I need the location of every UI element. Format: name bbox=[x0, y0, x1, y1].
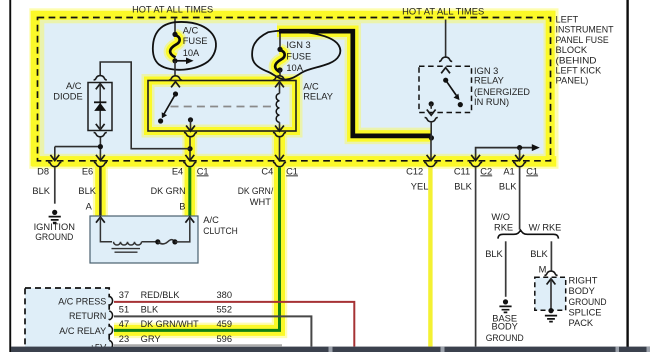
svg-text:37: 37 bbox=[119, 290, 129, 300]
svg-text:A1: A1 bbox=[503, 166, 514, 176]
highlight: thick wire IGN3 relay to fuses bbox=[277, 31, 431, 136]
highlight: IGN 3 fuse element bbox=[275, 50, 285, 72]
connector pin cavities bbox=[109, 296, 112, 349]
node: junction diode/E6/D8 bbox=[98, 144, 103, 149]
svg-text:W/ RKE: W/ RKE bbox=[529, 222, 562, 232]
wire: C11 BLK down bbox=[475, 167, 477, 347]
A/C clutch pin arrows bbox=[96, 217, 105, 223]
svg-text:LEFT: LEFT bbox=[556, 15, 579, 25]
svg-text:380: 380 bbox=[217, 290, 233, 300]
highlight: A/C fuse element bbox=[170, 35, 180, 57]
svg-text:47: 47 bbox=[119, 319, 129, 329]
svg-text:WHT: WHT bbox=[250, 197, 271, 207]
svg-text:459: 459 bbox=[217, 319, 233, 329]
svg-text:(ENERGIZED: (ENERGIZED bbox=[474, 87, 530, 97]
svg-text:DK GRN: DK GRN bbox=[151, 186, 186, 196]
svg-text:BLK: BLK bbox=[78, 186, 96, 196]
svg-text:FUSE: FUSE bbox=[286, 51, 311, 61]
svg-text:IGN 3: IGN 3 bbox=[286, 40, 310, 50]
wire: C4 DK GRN/WHT core bbox=[114, 167, 280, 330]
svg-text:BODY: BODY bbox=[569, 286, 595, 296]
svg-text:A: A bbox=[86, 202, 93, 212]
wire: 23 GRY 596 bbox=[114, 344, 282, 346]
svg-text:C1: C1 bbox=[286, 166, 298, 176]
svg-text:RELAY: RELAY bbox=[303, 92, 333, 102]
svg-text:RIGHT: RIGHT bbox=[569, 276, 598, 286]
svg-text:C12: C12 bbox=[406, 166, 423, 176]
svg-text:INSTRUMENT: INSTRUMENT bbox=[556, 25, 614, 35]
node: junction diode loop / E4 bbox=[187, 146, 192, 151]
svg-text:DK GRN/WHT: DK GRN/WHT bbox=[141, 319, 199, 329]
wire: 37 RED/BLK 380 bbox=[114, 302, 354, 347]
wire: hot feed down to IGN3 relay bbox=[445, 20, 447, 58]
svg-text:BLK: BLK bbox=[485, 249, 503, 259]
wire: W/ RKE BLK to splice pack bbox=[550, 241, 552, 270]
thick wire: IGN3 relay output to IGN3 fuse / A/C relay coil bbox=[279, 31, 431, 136]
wire: A/C fuse to relay pin bbox=[174, 61, 176, 76]
connector pin cavity masks bbox=[108, 297, 111, 348]
highlight: fuse block border bbox=[35, 15, 551, 161]
svg-text:FUSE: FUSE bbox=[183, 36, 208, 46]
svg-text:A/C RELAY: A/C RELAY bbox=[59, 326, 106, 336]
wire: page border right bbox=[626, 0, 628, 352]
IGN3 relay switch bbox=[443, 78, 448, 83]
fuse A/C FUSE 10A outline bbox=[153, 22, 216, 70]
svg-text:E4: E4 bbox=[172, 166, 183, 176]
fuse element IGN 3 bbox=[275, 50, 285, 72]
bottom status bar bbox=[11, 347, 650, 352]
wire: IGN3 fuse to relay coil pin bbox=[279, 70, 281, 76]
svg-text:GRY: GRY bbox=[141, 334, 161, 344]
wire: A1 BLK down to RKE split bbox=[519, 167, 521, 230]
svg-text:PACK: PACK bbox=[569, 318, 594, 328]
svg-text:596: 596 bbox=[217, 334, 233, 344]
relay A/C RELAY box bbox=[148, 81, 296, 132]
ground: ignition ground bbox=[52, 210, 57, 215]
splice: right body ground splice pack box bbox=[535, 277, 566, 310]
ground: splice pack ground bbox=[548, 308, 553, 313]
label RIGHT BODY GROUND SPLICE PACK bbox=[569, 276, 607, 329]
A/C relay switch output pin bbox=[188, 117, 193, 122]
svg-text:HOT AT ALL TIMES: HOT AT ALL TIMES bbox=[132, 4, 213, 14]
svg-text:YEL: YEL bbox=[411, 181, 429, 191]
svg-text:GROUND: GROUND bbox=[35, 232, 73, 242]
svg-text:10A: 10A bbox=[183, 48, 200, 58]
wire: E6 BLK core to clutch A bbox=[99, 167, 102, 216]
highlight: wire E6 to A/C clutch pin A bbox=[93, 157, 108, 216]
svg-text:W/O: W/O bbox=[491, 212, 510, 222]
label LEFT INSTRUMENT PANEL FUSE BLOCK bbox=[556, 15, 614, 86]
svg-text:(BEHIND: (BEHIND bbox=[556, 55, 597, 65]
diode A/C DIODE box bbox=[88, 83, 112, 131]
splice pack internal wire bbox=[547, 279, 556, 285]
svg-text:PANEL FUSE: PANEL FUSE bbox=[556, 35, 609, 45]
wire: diode bottom to D8/E6 junction bbox=[99, 137, 101, 159]
A/C relay coil bbox=[273, 76, 286, 80]
svg-text:10A: 10A bbox=[286, 63, 303, 73]
svg-text:CLUTCH: CLUTCH bbox=[203, 226, 238, 236]
splice pack terminal M bbox=[544, 271, 557, 275]
svg-text:SPLICE: SPLICE bbox=[569, 308, 602, 318]
svg-text:BLK: BLK bbox=[530, 249, 548, 259]
svg-text:51: 51 bbox=[119, 305, 129, 315]
IGN3 relay input terminal bbox=[439, 57, 452, 61]
svg-text:IGNITION: IGNITION bbox=[34, 222, 75, 232]
svg-text:23: 23 bbox=[119, 334, 129, 344]
wire: YEL from C12 bbox=[428, 167, 432, 346]
svg-text:DIODE: DIODE bbox=[53, 92, 82, 102]
connector: A/C press connector (dashed box) bbox=[25, 288, 109, 352]
A/C relay pin 1 terminal bbox=[169, 76, 182, 80]
svg-text:LEFT KICK: LEFT KICK bbox=[556, 65, 602, 75]
ground: base body ground bbox=[503, 299, 508, 304]
wire: page border left bbox=[9, 0, 11, 352]
svg-text:B: B bbox=[179, 202, 185, 212]
wire: C11/A1 tie with off-page arrow bbox=[476, 148, 532, 160]
svg-text:A/C PRESS: A/C PRESS bbox=[58, 297, 106, 307]
A/C relay switch bbox=[173, 91, 178, 96]
svg-text:552: 552 bbox=[217, 305, 233, 315]
svg-text:C4: C4 bbox=[261, 166, 273, 176]
bus arrows into terminals bbox=[50, 155, 59, 161]
svg-text:C1: C1 bbox=[197, 166, 209, 176]
wire: D8 branch bbox=[55, 147, 101, 160]
svg-text:GROUND: GROUND bbox=[569, 297, 607, 307]
svg-text:E6: E6 bbox=[82, 166, 93, 176]
svg-text:DK GRN/: DK GRN/ bbox=[238, 186, 274, 196]
bus terminals on fuse block bottom bbox=[48, 162, 61, 166]
svg-text:C1: C1 bbox=[526, 166, 538, 176]
highlight: wire E4 to A/C clutch pin B bbox=[182, 131, 197, 216]
svg-text:RKE: RKE bbox=[494, 222, 513, 232]
A/C diode terminals bbox=[94, 76, 107, 80]
svg-text:BLK: BLK bbox=[32, 186, 50, 196]
svg-text:RELAY: RELAY bbox=[474, 76, 504, 86]
wire: C12 drop bbox=[430, 138, 432, 159]
svg-text:RETURN: RETURN bbox=[69, 311, 106, 321]
svg-text:BLK: BLK bbox=[141, 305, 159, 315]
left instrument panel fuse block body bbox=[38, 18, 551, 161]
svg-text:C11: C11 bbox=[454, 166, 470, 176]
A/C relay divider (dashed) bbox=[171, 106, 275, 108]
relay IGN 3 RELAY (dashed box) bbox=[419, 66, 472, 112]
wire: C4 drop from relay coil to bus bbox=[279, 137, 281, 159]
wire: E4 drop from relay to bus bbox=[189, 137, 191, 159]
clutch A/C CLUTCH box bbox=[90, 216, 198, 263]
wire: IGN3 fuse top to thick feed bbox=[279, 32, 281, 51]
fuse IGN 3 FUSE 10A outline bbox=[252, 31, 340, 80]
svg-text:BLK: BLK bbox=[454, 181, 472, 191]
fuse block border (dashed) bbox=[38, 18, 551, 161]
svg-text:BLK: BLK bbox=[499, 181, 517, 191]
svg-text:A/C: A/C bbox=[203, 215, 219, 225]
fuse element A/C bbox=[170, 35, 180, 57]
wire: E4 DK GRN core to clutch B bbox=[188, 167, 191, 216]
svg-text:IN RUN): IN RUN) bbox=[474, 97, 509, 107]
wire: 51 BLK 552 bbox=[114, 316, 311, 346]
svg-text:BODY: BODY bbox=[492, 322, 518, 332]
wire: D8 BLK to ignition ground bbox=[54, 167, 56, 204]
svg-text:A/C: A/C bbox=[183, 26, 199, 36]
svg-text:GROUND: GROUND bbox=[486, 333, 524, 343]
svg-text:A/C: A/C bbox=[303, 82, 319, 92]
highlight: wire C4 to connector pin 47 (DK GRN/WHT) bbox=[114, 131, 280, 330]
svg-text:RED/BLK: RED/BLK bbox=[141, 290, 181, 300]
svg-text:PANEL): PANEL) bbox=[556, 76, 589, 86]
A/C clutch coil circuit bbox=[100, 217, 112, 242]
svg-text:HOT AT ALL TIMES: HOT AT ALL TIMES bbox=[402, 6, 484, 16]
wire: A/C diode loop to relay bbox=[100, 62, 190, 149]
wire: IGN3 relay output to thick wire bbox=[430, 122, 432, 138]
svg-text:A/C: A/C bbox=[66, 81, 82, 91]
svg-text:BLOCK: BLOCK bbox=[556, 45, 588, 55]
wire: hot feed down to A/C fuse bbox=[174, 18, 176, 34]
wire: W/O RKE BLK to base body ground bbox=[505, 241, 507, 296]
svg-text:D8: D8 bbox=[37, 166, 49, 176]
svg-text:IGN 3: IGN 3 bbox=[474, 66, 498, 76]
wire: feed arrow from A/C fuse bbox=[175, 60, 187, 62]
svg-text:C2: C2 bbox=[480, 166, 492, 176]
highlight: A/C relay border bbox=[148, 81, 296, 132]
A/C diode element bbox=[99, 84, 101, 130]
svg-text:M: M bbox=[539, 265, 547, 275]
brace: RKE option split bbox=[498, 230, 559, 238]
IGN3 relay output pin bbox=[429, 101, 434, 106]
